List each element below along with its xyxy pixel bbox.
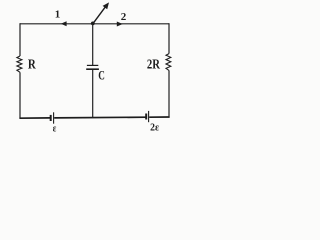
battery ε (tall thin positive plate) (53, 112, 55, 123)
wire: middle branch upper (switch pole to capacitor) (92, 24, 94, 65)
battery 2ε (tall thin positive plate) (148, 111, 150, 122)
label 1 (55, 8, 61, 20)
wire: middle branch lower (capacitor to bottom junction) (92, 70, 94, 118)
wire: bottom-right segment (149, 116, 169, 118)
resistor 2R (zigzag) (166, 54, 171, 71)
svg-text:C: C (98, 68, 105, 83)
wire: left branch upper (19, 23, 21, 56)
wire: bottom-left segment (19, 117, 50, 119)
capacitor C bottom plate (86, 68, 99, 70)
wire: left branch lower (19, 72, 21, 118)
capacitor C top plate (87, 64, 98, 66)
wire: top-left segment (node 1 side) (20, 23, 93, 25)
svg-text:2R: 2R (147, 58, 161, 73)
svg-text:2: 2 (121, 11, 127, 23)
label 2ε (150, 121, 159, 133)
wire: right branch upper (168, 23, 170, 53)
label R (28, 58, 37, 73)
label ε (53, 123, 57, 134)
current arrow 2 (right, pointing right) (117, 22, 123, 27)
svg-text:2ε: 2ε (150, 121, 159, 133)
label 2 (121, 11, 127, 23)
current arrow 1 (left, pointing left) (61, 21, 67, 26)
svg-text:1: 1 (55, 8, 61, 20)
battery 2ε (short thick negative plate) (145, 114, 147, 120)
switch S lever with arrowhead (93, 2, 109, 23)
wire: bottom-middle segment (54, 116, 145, 119)
svg-text:ε: ε (53, 123, 57, 134)
label 2R (147, 58, 161, 73)
battery ε (short thick negative plate) (50, 115, 52, 121)
svg-text:R: R (28, 58, 37, 73)
switch S pole node (junction dot) (91, 22, 95, 26)
label C (98, 68, 105, 83)
wire: right branch lower (168, 70, 170, 117)
wire: top-right segment (node 2 side) (93, 23, 169, 25)
resistor R (zigzag) (17, 56, 22, 72)
